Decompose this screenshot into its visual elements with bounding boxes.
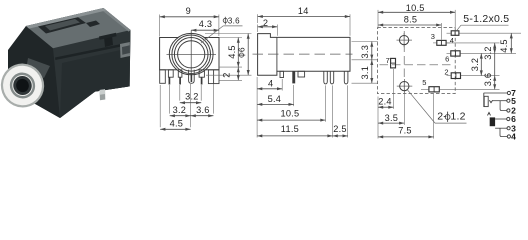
front view: dimension 4.5 (row 3) — [160, 128, 190, 130]
svg-text:7.5: 7.5 — [398, 126, 412, 136]
svg-text:6: 6 — [445, 54, 449, 63]
svg-text:4.5: 4.5 — [499, 39, 509, 53]
front view: pins — [160, 70, 166, 84]
svg-text:9: 9 — [186, 6, 191, 16]
bottom view: dimension 3.5 — [403, 94, 405, 125]
side view: inner edge line — [276, 37, 278, 71]
side view: dimension 14 (top width) — [257, 14, 259, 23]
svg-text:2-: 2- — [437, 111, 447, 123]
bottom view: pad 5 — [429, 87, 439, 92]
svg-text:2.5: 2.5 — [333, 124, 347, 134]
bottom view: dimension 7.5 — [433, 94, 435, 139]
svg-text:3.1: 3.1 — [360, 66, 370, 80]
svg-text:3.6: 3.6 — [196, 105, 210, 115]
front view: right-side extension lines — [205, 33, 252, 35]
svg-text:3.6: 3.6 — [228, 16, 240, 25]
svg-text:2: 2 — [221, 72, 231, 77]
svg-text:3: 3 — [431, 32, 435, 41]
svg-text:5-1.2x0.5: 5-1.2x0.5 — [463, 13, 509, 25]
svg-text:3.2: 3.2 — [483, 46, 493, 60]
front view: dimension 9 (top width) — [159, 15, 161, 37]
svg-text:2.4: 2.4 — [378, 97, 392, 107]
schematic: pin 7 wire and terminal — [484, 92, 508, 94]
svg-text:5: 5 — [422, 78, 426, 87]
schematic: pin 3 wire and terminal — [495, 127, 507, 129]
side view: left extension column — [256, 77, 258, 138]
svg-text:3.5: 3.5 — [385, 113, 399, 123]
svg-text:4: 4 — [268, 78, 273, 88]
side view: dimension 2.5 — [347, 85, 349, 137]
svg-text:10.5: 10.5 — [406, 3, 425, 13]
side view: dimension 2 (barrel protrusion) — [257, 25, 259, 33]
photo of 3.5mm jack socket (isometric product photo) — [0, 8, 131, 118]
bottom view: pad 4 — [451, 31, 459, 36]
schematic: pin 5 wire and terminal — [493, 100, 508, 102]
bottom view: dimension 4.5 (rotated) — [510, 33, 512, 53]
svg-text:5.4: 5.4 — [268, 94, 282, 104]
svg-text:5: 5 — [511, 96, 516, 106]
side view: body outline — [258, 34, 350, 76]
svg-text:10.5: 10.5 — [280, 109, 299, 119]
front view: bottom extension lines — [159, 85, 161, 127]
svg-text:3.3: 3.3 — [360, 45, 370, 59]
svg-text:14: 14 — [298, 6, 309, 16]
schematic: tip spring contact (^) — [488, 113, 491, 116]
front view: dimension ⌀6 (rotated) — [247, 34, 249, 76]
side view: dimension 4 — [281, 79, 283, 91]
svg-text:7: 7 — [386, 56, 390, 65]
svg-text:1.2: 1.2 — [450, 111, 465, 123]
bottom view: label 2-⌀1.2 with leader — [407, 89, 435, 123]
side view: dimension 11.5 — [332, 85, 334, 137]
bottom view: dimension 3.2 (pads 6-2, rotated) — [480, 53, 482, 75]
front view: body outline — [160, 38, 219, 70]
bottom view: pad 7 (vertical) — [391, 58, 396, 68]
front view: dimension 3.2 (row 1) — [180, 102, 201, 104]
side view: pins — [280, 71, 284, 77]
svg-text:3.6: 3.6 — [483, 73, 493, 87]
svg-text:4: 4 — [511, 132, 516, 142]
front view: jack flange outer ring — [169, 33, 213, 74]
bottom view: dash-dot centerlines — [403, 31, 405, 94]
side view: dimension 10.5 — [325, 85, 327, 121]
side view: dimension 5.4 — [293, 85, 295, 106]
bottom view: pad 6 — [451, 51, 460, 56]
svg-text:3.2: 3.2 — [185, 92, 199, 102]
bottom view: pad 2 — [451, 73, 460, 79]
bottom view: dimensions 3.2 / 3.6 (rotated) — [494, 43, 496, 90]
bottom view: pad 3 — [437, 40, 446, 45]
schematic: pin 2 branch wire and terminal — [500, 101, 507, 111]
front view: dimension 4.3 — [191, 29, 219, 31]
schematic: ring spring contact (v) — [489, 100, 492, 103]
bottom view: dimension 8.5 — [440, 23, 442, 40]
bottom view: right extension lines from pads — [459, 32, 521, 34]
side view: dashed centerline — [253, 53, 353, 55]
bottom view: dimension 2.4 — [377, 97, 379, 139]
svg-text:8.5: 8.5 — [404, 14, 418, 24]
svg-text:2: 2 — [444, 68, 448, 77]
bottom view: dashed body outline — [378, 28, 456, 94]
front view: centerlines crosshair — [167, 53, 217, 55]
svg-text:2: 2 — [263, 18, 268, 28]
side view: right dimensions 3.3 and 3.1 (rotated, stacked) — [352, 41, 379, 43]
front view: dimension 2 (pin length, rotated) — [237, 67, 239, 80]
schematic: sleeve contact box — [484, 96, 488, 106]
bottom view: mounting hole ⌀1.2 (bottom) — [400, 81, 409, 90]
svg-text:3.2: 3.2 — [173, 105, 187, 115]
svg-text:4.5: 4.5 — [227, 45, 237, 59]
schematic: pin 6 wire and terminal — [495, 118, 507, 120]
svg-text:11.5: 11.5 — [281, 124, 299, 134]
schematic: plug tip (filled) — [490, 117, 495, 126]
svg-text:6: 6 — [236, 47, 246, 52]
front view: dimensions 3.2 / 3.6 (row 2) — [170, 115, 214, 117]
svg-text:4: 4 — [450, 36, 454, 45]
schematic: pin 4 branch wire and terminal — [500, 128, 508, 136]
svg-text:4.3: 4.3 — [199, 19, 213, 29]
svg-text:4.5: 4.5 — [170, 118, 184, 128]
front view: jack barrel circles (⌀6 and bore) — [172, 35, 211, 74]
svg-text:3.2: 3.2 — [470, 58, 480, 72]
front view: label ⌀3.6 with leader — [201, 26, 223, 43]
bottom view: mounting hole ⌀1.2 (top) — [399, 35, 408, 44]
schematic: plug sleeve line — [483, 93, 485, 107]
bottom view: dimension 10.5 — [377, 10, 379, 29]
front view: dimension 4.5 (height, rotated) — [237, 38, 239, 68]
